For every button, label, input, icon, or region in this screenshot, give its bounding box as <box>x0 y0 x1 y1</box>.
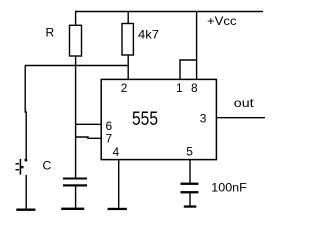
svg-text:555: 555 <box>132 108 158 130</box>
svg-text:8: 8 <box>191 81 198 95</box>
svg-text:4k7: 4k7 <box>138 28 159 42</box>
wire pin 3 out <box>216 117 265 119</box>
wire pin 4 to ground <box>118 160 120 208</box>
wire node junction R/C horizontal <box>25 65 128 67</box>
wire R top lead <box>75 12 77 26</box>
switch C actuator tick lower <box>16 169 20 171</box>
capacitor C timing bottom plate <box>63 184 87 186</box>
wire pin 7 <box>75 137 101 138</box>
switch C contact bar <box>19 159 21 175</box>
wire +Vcc down to pin 8 <box>196 12 198 80</box>
wire switch to ground <box>25 175 27 209</box>
IC U1 555 timer body <box>101 79 216 159</box>
svg-text:4: 4 <box>113 145 120 159</box>
resistor 4k7 <box>122 24 133 56</box>
ground 100nF <box>184 205 197 207</box>
svg-text:7: 7 <box>106 132 113 146</box>
ground timing cap <box>61 208 84 210</box>
svg-text:1: 1 <box>176 81 183 95</box>
svg-text:out: out <box>234 96 255 110</box>
svg-text:5: 5 <box>186 144 193 158</box>
wire 100nF to ground <box>189 193 191 205</box>
switch C actuator tick upper <box>16 163 20 165</box>
resistor R <box>70 25 82 56</box>
wire 4k7 top lead <box>127 12 129 24</box>
svg-text:+Vcc: +Vcc <box>207 14 237 28</box>
wire R bottom lead down to timing capacitor <box>75 56 77 178</box>
switch C terminal dot <box>25 159 28 162</box>
wire 4k7 bottom lead to pin 2 <box>127 55 129 79</box>
svg-text:C: C <box>43 159 52 173</box>
svg-text:3: 3 <box>200 112 207 126</box>
switch C actuator mark <box>21 166 23 168</box>
wire +Vcc top rail <box>75 11 263 13</box>
wire timing cap to ground <box>75 187 77 209</box>
svg-text:R: R <box>46 26 55 40</box>
capacitor 100nF bottom plate <box>181 191 199 193</box>
notch pins 1-8 tie <box>180 60 197 79</box>
capacitor 100nF top plate <box>181 183 199 185</box>
capacitor C timing top plate <box>63 178 87 180</box>
ground pin 4 <box>108 208 127 210</box>
svg-text:100nF: 100nF <box>211 181 247 195</box>
wire pin 5 lead <box>189 160 191 183</box>
wire pin 6 <box>75 123 101 125</box>
wire left branch down to switch C <box>25 66 26 161</box>
ground left <box>16 209 35 211</box>
svg-text:2: 2 <box>121 81 128 95</box>
